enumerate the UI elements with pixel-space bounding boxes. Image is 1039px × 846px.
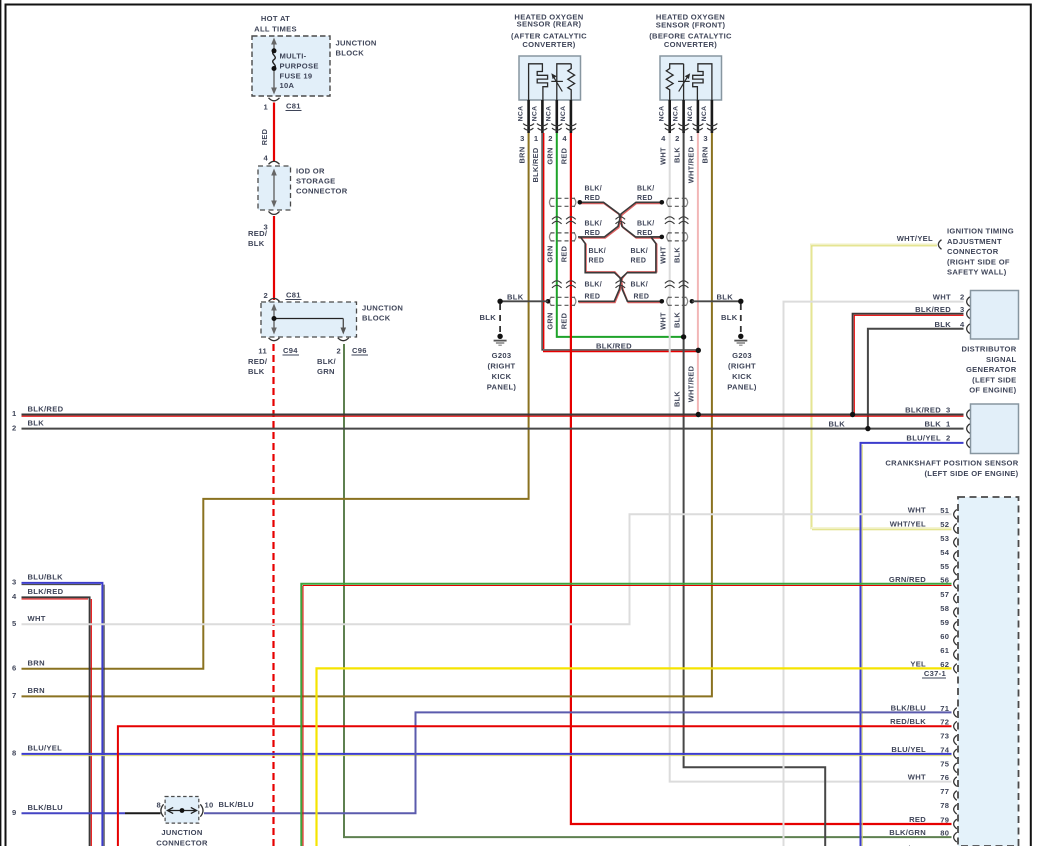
rotated labels GRN RED mid bbox=[546, 245, 569, 262]
svg-text:BLK/: BLK/ bbox=[585, 281, 603, 288]
svg-text:2: 2 bbox=[263, 291, 268, 300]
svg-text:58: 58 bbox=[940, 604, 949, 613]
svg-text:WHT: WHT bbox=[933, 293, 951, 302]
ECU pin arcs 71-80 bbox=[954, 708, 957, 842]
svg-text:3: 3 bbox=[946, 406, 951, 415]
label IGNITION TIMING ADJUSTMENT CONNECTOR bbox=[947, 227, 1014, 277]
svg-text:73: 73 bbox=[940, 732, 949, 741]
connector arc below IOD box bbox=[269, 211, 280, 214]
svg-text:57: 57 bbox=[940, 590, 949, 599]
svg-text:CONVERTER): CONVERTER) bbox=[664, 40, 717, 49]
svg-text:C81: C81 bbox=[286, 291, 301, 300]
svg-text:1: 1 bbox=[946, 419, 951, 428]
svg-text:BLK: BLK bbox=[934, 320, 951, 329]
fuse terminal dot top bbox=[272, 48, 277, 53]
junction connector dashed box bbox=[165, 797, 199, 824]
node dot row2 right bbox=[660, 235, 665, 240]
heated oxygen sensor rear title bbox=[511, 13, 587, 50]
svg-text:NCA: NCA bbox=[687, 106, 694, 122]
svg-text:RED: RED bbox=[909, 815, 926, 824]
svg-text:61: 61 bbox=[940, 646, 950, 655]
label 5 WHT bbox=[12, 614, 46, 628]
svg-text:3: 3 bbox=[960, 305, 965, 314]
svg-text:SENSOR (REAR): SENSOR (REAR) bbox=[517, 20, 582, 29]
fuse arrow up bbox=[271, 38, 277, 45]
svg-text:GENERATOR: GENERATOR bbox=[966, 365, 1017, 374]
svg-text:BLK: BLK bbox=[924, 419, 941, 428]
ground G203 right bbox=[734, 334, 747, 346]
svg-text:77: 77 bbox=[940, 787, 949, 796]
ECU pin arcs 51-62 bbox=[954, 510, 957, 674]
svg-text:1: 1 bbox=[263, 103, 268, 112]
wire 62 YEL bbox=[317, 668, 952, 846]
svg-text:WHT: WHT bbox=[908, 505, 926, 514]
svg-text:8: 8 bbox=[156, 801, 161, 810]
svg-text:C37-1: C37-1 bbox=[924, 669, 947, 678]
wire BLK distributor pin 4 bbox=[868, 329, 964, 429]
svg-text:BLK/RED: BLK/RED bbox=[531, 147, 540, 182]
svg-text:BLK: BLK bbox=[672, 391, 681, 407]
svg-text:JUNCTION: JUNCTION bbox=[336, 39, 377, 48]
heated oxygen sensor front box bbox=[660, 56, 722, 100]
svg-text:WHT/RED: WHT/RED bbox=[687, 146, 696, 183]
svg-text:BLK/GRN: BLK/GRN bbox=[889, 828, 926, 837]
label JUNCTION CONNECTOR bbox=[156, 828, 208, 846]
label 9 BLK/BLU bbox=[12, 803, 63, 817]
dashed lead G203 left bbox=[499, 304, 501, 333]
IOD double arrow bbox=[271, 169, 277, 208]
wire BLK/GRN C96 down to ECU pin 80 bbox=[344, 344, 952, 837]
svg-text:WHT: WHT bbox=[658, 246, 667, 264]
wire BLK to G203 right bbox=[692, 300, 741, 302]
svg-text:2: 2 bbox=[946, 434, 951, 443]
svg-text:52: 52 bbox=[940, 520, 949, 529]
svg-text:(LEFT SIDE: (LEFT SIDE bbox=[972, 375, 1016, 384]
wire BLK to G203 left bbox=[500, 300, 548, 302]
wire 5 WHT to ECU pin 51 bbox=[22, 514, 952, 624]
ignition connector arc bbox=[938, 240, 941, 250]
wire WHT to distributor pin 2 bbox=[784, 302, 964, 846]
svg-text:BLK/: BLK/ bbox=[317, 357, 337, 366]
wire GRN rear sensor bbox=[557, 133, 684, 337]
svg-text:STORAGE: STORAGE bbox=[296, 177, 336, 186]
svg-text:54: 54 bbox=[940, 548, 950, 557]
svg-text:(RIGHT SIDE OF: (RIGHT SIDE OF bbox=[947, 257, 1010, 266]
wire RED rear sensor to ECU pin 79 bbox=[571, 133, 952, 824]
wire 72 RED/BLK bbox=[118, 726, 952, 846]
svg-text:WHT/RED: WHT/RED bbox=[687, 365, 696, 402]
svg-text:71: 71 bbox=[940, 704, 950, 713]
connector C37-1 label bbox=[922, 669, 946, 678]
label G203 RIGHT KICK PANEL left bbox=[487, 351, 517, 392]
label BLK/GRN (below C96) bbox=[317, 357, 337, 376]
svg-text:PANEL): PANEL) bbox=[727, 383, 757, 392]
svg-text:RED: RED bbox=[260, 128, 269, 145]
crossover wire B black bbox=[578, 202, 662, 237]
svg-text:2: 2 bbox=[548, 134, 553, 143]
svg-text:4: 4 bbox=[661, 134, 666, 143]
svg-text:74: 74 bbox=[940, 745, 950, 754]
svg-text:C81: C81 bbox=[286, 102, 301, 111]
svg-text:WHT/YEL: WHT/YEL bbox=[897, 234, 933, 243]
label 7 BRN bbox=[12, 686, 45, 700]
label G203 RIGHT KICK PANEL right bbox=[727, 351, 757, 392]
svg-text:YEL: YEL bbox=[910, 659, 926, 668]
svg-text:BLK: BLK bbox=[829, 419, 846, 428]
inline connector row2 left bbox=[549, 232, 575, 241]
sensor rear zigzag resistor bbox=[568, 64, 575, 100]
svg-text:BLK/: BLK/ bbox=[631, 281, 649, 288]
svg-text:NCA: NCA bbox=[673, 106, 680, 122]
crossover wire A black bbox=[580, 202, 662, 237]
sensor connector arcs front bbox=[664, 124, 717, 131]
wire BLK/RED rear sensor black bbox=[542, 133, 698, 350]
svg-text:1: 1 bbox=[534, 134, 539, 143]
svg-text:BLU/YEL: BLU/YEL bbox=[891, 745, 926, 754]
sensor connector arcs rear bbox=[523, 124, 576, 131]
svg-text:4: 4 bbox=[12, 592, 17, 601]
svg-text:60: 60 bbox=[940, 632, 949, 641]
sensor rear pin numbers 3 1 2 4 bbox=[520, 134, 567, 143]
svg-text:1: 1 bbox=[12, 409, 17, 418]
connector arc below junction block 2 left bbox=[269, 338, 280, 341]
svg-text:(RIGHT: (RIGHT bbox=[728, 362, 756, 371]
wire 9 BLK/BLU black segment bbox=[125, 812, 161, 814]
ECU pin numbers 71-81 bbox=[940, 704, 950, 846]
svg-text:BLK: BLK bbox=[717, 293, 734, 302]
svg-text:RED: RED bbox=[589, 258, 605, 265]
svg-text:BLK/BLU: BLK/BLU bbox=[219, 800, 255, 809]
svg-text:55: 55 bbox=[940, 562, 950, 571]
wire 2 BLK long bbox=[22, 428, 964, 430]
svg-text:79: 79 bbox=[940, 816, 949, 825]
svg-text:JUNCTION: JUNCTION bbox=[362, 304, 403, 313]
svg-text:BLK/: BLK/ bbox=[585, 220, 603, 227]
svg-text:BLK: BLK bbox=[480, 313, 497, 322]
svg-text:C96: C96 bbox=[352, 346, 367, 355]
svg-text:BLK/RED: BLK/RED bbox=[596, 342, 632, 351]
inline connector row3 left bbox=[549, 297, 575, 306]
svg-text:BLK: BLK bbox=[248, 239, 265, 248]
svg-text:BLOCK: BLOCK bbox=[362, 314, 391, 323]
svg-text:SAFETY WALL): SAFETY WALL) bbox=[947, 268, 1007, 277]
svg-text:62: 62 bbox=[940, 660, 949, 669]
svg-text:CONNECTOR: CONNECTOR bbox=[947, 247, 999, 256]
svg-text:KICK: KICK bbox=[732, 372, 752, 381]
node dot row3 left outer bbox=[546, 299, 551, 304]
svg-text:RED: RED bbox=[637, 195, 653, 202]
svg-text:SIGNAL: SIGNAL bbox=[986, 355, 1017, 364]
badge wire right black bbox=[578, 237, 662, 301]
label HOT AT ALL TIMES bbox=[254, 14, 297, 34]
svg-text:CONVERTER): CONVERTER) bbox=[522, 40, 575, 49]
svg-text:BLK: BLK bbox=[507, 293, 524, 302]
badge wire right red shadow bbox=[579, 238, 662, 302]
connector C96 label bbox=[352, 346, 369, 355]
node dot WHT/RED line1 bbox=[696, 412, 701, 417]
sensor front variable arrow bbox=[678, 74, 690, 91]
svg-text:10: 10 bbox=[205, 801, 214, 810]
wire BLU/YEL crankshaft yellow stripe bbox=[861, 445, 863, 846]
svg-text:WHT/YEL: WHT/YEL bbox=[890, 519, 926, 528]
svg-text:G203: G203 bbox=[732, 351, 752, 360]
svg-text:2: 2 bbox=[675, 134, 680, 143]
wire RED fuse to IOD bbox=[273, 103, 275, 163]
connector arc below junction block 2 right bbox=[338, 338, 349, 341]
svg-text:BLK: BLK bbox=[248, 367, 265, 376]
svg-text:NCA: NCA bbox=[531, 106, 538, 122]
wire RED/BLK dashed C94 down bbox=[272, 344, 274, 846]
svg-text:BRN: BRN bbox=[517, 147, 526, 164]
svg-text:BLK/: BLK/ bbox=[589, 248, 607, 255]
wire BRN rear sensor to left edge 6 bbox=[22, 133, 529, 669]
fuse terminal dot bottom bbox=[272, 66, 277, 71]
label MULTI-PURPOSE FUSE 19 10A bbox=[280, 52, 319, 91]
sensor front heater element bbox=[693, 64, 712, 100]
svg-text:51: 51 bbox=[940, 506, 950, 515]
rotated labels WHT BLK lower bbox=[658, 312, 681, 330]
wire WHT/RED front sensor bbox=[697, 133, 699, 415]
heated oxygen sensor front title bbox=[649, 13, 732, 50]
wire 1 BLK/RED long red stripe bbox=[22, 415, 964, 417]
label 1 BLK/RED bbox=[12, 404, 64, 418]
connector arc below fuse box bbox=[269, 98, 280, 101]
sensor rear sense element vertical bbox=[557, 64, 571, 100]
inline connector row3 right bbox=[667, 297, 688, 306]
ECU pin numbers 51-62 bbox=[940, 506, 950, 669]
crossover wire B red shadow bbox=[579, 204, 662, 239]
inline connector row1 left bbox=[549, 198, 575, 207]
svg-text:RED: RED bbox=[560, 245, 569, 262]
svg-text:OF ENGINE): OF ENGINE) bbox=[969, 386, 1016, 395]
svg-text:53: 53 bbox=[940, 534, 949, 543]
svg-text:RED: RED bbox=[560, 147, 569, 164]
fuse arrow down bbox=[271, 88, 277, 95]
svg-text:59: 59 bbox=[940, 618, 949, 627]
svg-text:2: 2 bbox=[12, 423, 17, 432]
svg-text:ALL TIMES: ALL TIMES bbox=[254, 25, 297, 34]
inline connector row2 right bbox=[667, 232, 688, 241]
svg-text:WHT: WHT bbox=[658, 312, 667, 330]
svg-text:RED/: RED/ bbox=[248, 229, 268, 238]
fuse F19 element bbox=[273, 43, 276, 88]
svg-text:PURPOSE: PURPOSE bbox=[280, 62, 319, 71]
node dot G203 left bbox=[497, 299, 502, 304]
svg-text:BLU/BLK: BLU/BLK bbox=[28, 573, 64, 582]
NCA labels rear bbox=[518, 106, 567, 122]
svg-text:IOD OR: IOD OR bbox=[296, 167, 325, 176]
junction block (fuse) dashed box bbox=[252, 36, 330, 96]
wire 56 GRN/RED red stripe bbox=[303, 586, 952, 846]
svg-text:PANEL): PANEL) bbox=[487, 383, 517, 392]
wire 8 BLU/YEL to ECU pin 74 bbox=[22, 753, 952, 755]
connector C94 label bbox=[283, 346, 300, 355]
junction connector dot bbox=[180, 808, 185, 813]
svg-text:BLK/: BLK/ bbox=[585, 186, 603, 193]
node dot row3 right inner bbox=[660, 299, 665, 304]
crankshaft pin labels bbox=[905, 406, 951, 443]
svg-text:RED: RED bbox=[585, 230, 601, 237]
svg-text:BLK/: BLK/ bbox=[631, 248, 649, 255]
svg-text:1: 1 bbox=[689, 134, 694, 143]
junction block 2 dashed box bbox=[261, 302, 357, 337]
wire RED IOD to junction block 2 bbox=[273, 216, 275, 300]
wire 1 BLK/RED long black bbox=[22, 414, 964, 416]
svg-text:BRN: BRN bbox=[28, 686, 45, 695]
junction connector arcs bbox=[161, 804, 203, 816]
connector C81 label bbox=[286, 102, 302, 111]
svg-text:4: 4 bbox=[263, 154, 268, 163]
svg-text:7: 7 bbox=[12, 691, 17, 700]
svg-text:WHT: WHT bbox=[28, 614, 46, 623]
wire 4 BLK/RED red stripe bbox=[22, 599, 92, 846]
svg-text:BLK: BLK bbox=[721, 313, 738, 322]
svg-text:RED: RED bbox=[585, 195, 601, 202]
badge wire left black bbox=[581, 237, 662, 301]
svg-text:BLK: BLK bbox=[672, 247, 681, 263]
ECU wire labels bbox=[889, 505, 926, 846]
label JUNCTION BLOCK (mid) bbox=[362, 304, 403, 323]
svg-text:RED: RED bbox=[585, 293, 601, 300]
wire BLK/RED distributor pin 3 red stripe bbox=[854, 315, 963, 413]
svg-text:RED: RED bbox=[634, 293, 650, 300]
wire WHT/YEL yellow edge bbox=[811, 246, 952, 530]
rotated wire color labels front bbox=[658, 146, 709, 183]
svg-text:BRN: BRN bbox=[28, 659, 45, 668]
svg-text:BLK/BLU: BLK/BLU bbox=[891, 703, 927, 712]
ECU connector C37-1 dashed box bbox=[958, 497, 1019, 846]
sensor front pin numbers 4 2 1 3 bbox=[661, 134, 708, 143]
svg-text:G203: G203 bbox=[492, 351, 512, 360]
svg-text:RED: RED bbox=[631, 258, 647, 265]
distributor signal generator box bbox=[971, 291, 1019, 340]
svg-text:76: 76 bbox=[940, 773, 949, 782]
svg-text:GRN: GRN bbox=[317, 367, 335, 376]
label 6 BRN bbox=[12, 659, 45, 673]
svg-text:BRN: BRN bbox=[701, 147, 710, 164]
node dot GRN to BLK bbox=[681, 334, 686, 339]
label CRANKSHAFT POSITION SENSOR bbox=[885, 459, 1018, 478]
crossover wire A red shadow bbox=[581, 204, 662, 239]
label RED/BLK (below C94) bbox=[248, 357, 268, 376]
svg-text:6: 6 bbox=[12, 664, 17, 673]
svg-text:2: 2 bbox=[960, 293, 965, 302]
inline connector arcs row B bbox=[552, 281, 688, 288]
svg-text:BLU/YEL: BLU/YEL bbox=[28, 744, 63, 753]
svg-text:ADJUSTMENT: ADJUSTMENT bbox=[947, 237, 1002, 246]
node dot row1 left bbox=[578, 200, 583, 205]
inline connector arcs row A bbox=[552, 217, 688, 224]
svg-text:BLK/: BLK/ bbox=[637, 220, 655, 227]
svg-text:HOT AT: HOT AT bbox=[261, 14, 290, 23]
NCA labels front bbox=[659, 106, 708, 122]
svg-text:NCA: NCA bbox=[546, 106, 553, 122]
node dot BLK/RED to WHT/RED bbox=[696, 348, 701, 353]
svg-text:BLK/RED: BLK/RED bbox=[28, 587, 64, 596]
wire 9 BLK/BLU right to ECU pin 71 bbox=[204, 712, 952, 813]
rotated wire color labels rear bbox=[517, 147, 568, 183]
sensor rear heater element bbox=[529, 64, 548, 100]
junction block 2 internal arrows and bus bbox=[271, 304, 346, 335]
label RED/BLK bbox=[248, 229, 268, 248]
node dot row3 right outer bbox=[690, 299, 695, 304]
wire BLK front sensor down bbox=[684, 133, 826, 846]
svg-text:(RIGHT: (RIGHT bbox=[488, 362, 516, 371]
label DISTRIBUTOR SIGNAL GENERATOR bbox=[961, 345, 1016, 395]
wire BLU/YEL crankshaft pin 2 bbox=[861, 443, 964, 846]
rotated labels GRN RED lower bbox=[546, 312, 569, 329]
svg-text:NCA: NCA bbox=[518, 106, 525, 122]
badge inner labels bbox=[589, 248, 649, 265]
svg-text:GRN/RED: GRN/RED bbox=[889, 575, 926, 584]
wire BRN front sensor to left edge 7 bbox=[22, 133, 712, 696]
svg-text:BLK: BLK bbox=[672, 312, 681, 328]
junction connector double arrow bbox=[167, 807, 196, 813]
svg-text:BLK/RED: BLK/RED bbox=[905, 406, 941, 415]
inline connector row1 right bbox=[667, 198, 688, 207]
svg-text:3: 3 bbox=[703, 134, 708, 143]
rotated labels WHT BLK mid bbox=[658, 246, 681, 264]
ground G203 left bbox=[494, 334, 507, 346]
svg-text:SENSOR (FRONT): SENSOR (FRONT) bbox=[656, 21, 726, 30]
wire WHT front sensor to ECU pin 76 bbox=[670, 133, 952, 782]
svg-text:80: 80 bbox=[940, 829, 949, 838]
svg-text:WHT: WHT bbox=[908, 773, 926, 782]
svg-text:WHT: WHT bbox=[658, 147, 667, 165]
svg-text:3: 3 bbox=[520, 134, 525, 143]
svg-text:75: 75 bbox=[940, 759, 950, 768]
page border top bbox=[5, 4, 1032, 6]
svg-text:KICK: KICK bbox=[492, 372, 512, 381]
svg-text:BLK/RED: BLK/RED bbox=[28, 404, 64, 413]
heated oxygen sensor rear box bbox=[519, 56, 581, 100]
IOD or storage connector dashed box bbox=[258, 166, 291, 210]
connector C81 label 2 bbox=[286, 291, 302, 300]
wire BLK/RED rear sensor red stripe bbox=[543, 133, 698, 352]
sensor front zigzag resistor bbox=[666, 64, 683, 100]
svg-text:RED/: RED/ bbox=[248, 357, 268, 366]
wire 56 GRN/RED green bbox=[301, 584, 951, 846]
svg-text:NCA: NCA bbox=[659, 106, 666, 122]
crankshaft position sensor box bbox=[971, 404, 1019, 454]
svg-text:CONNECTOR: CONNECTOR bbox=[156, 839, 208, 846]
svg-text:BLK/BLU: BLK/BLU bbox=[28, 803, 64, 812]
sensor rear variable arrow bbox=[551, 74, 563, 91]
label 2 BLK bbox=[12, 418, 44, 432]
svg-text:RED/BLK: RED/BLK bbox=[890, 717, 926, 726]
svg-text:78: 78 bbox=[940, 801, 949, 810]
label JUNCTION BLOCK (top) bbox=[336, 39, 377, 58]
wire BLK/RED distributor pin 3 black bbox=[853, 314, 964, 415]
crankshaft pin arcs bbox=[967, 410, 970, 448]
svg-text:4: 4 bbox=[960, 320, 965, 329]
svg-text:11: 11 bbox=[258, 347, 267, 356]
svg-text:DISTRIBUTOR: DISTRIBUTOR bbox=[961, 345, 1016, 354]
svg-text:8: 8 bbox=[12, 749, 17, 758]
svg-text:IGNITION TIMING: IGNITION TIMING bbox=[947, 227, 1014, 236]
svg-text:3: 3 bbox=[12, 578, 17, 587]
svg-text:BLK/RED: BLK/RED bbox=[915, 305, 951, 314]
svg-text:BLK: BLK bbox=[28, 418, 45, 427]
svg-text:MULTI-: MULTI- bbox=[280, 52, 307, 61]
wire 9 BLK/BLU blue left segment bbox=[22, 812, 126, 814]
svg-text:10A: 10A bbox=[280, 81, 295, 90]
svg-text:RED: RED bbox=[637, 230, 653, 237]
svg-text:72: 72 bbox=[940, 718, 949, 727]
sensor front sense element vertical bbox=[683, 64, 685, 100]
crossover labels row3 bbox=[585, 281, 650, 300]
svg-text:NCA: NCA bbox=[701, 106, 708, 122]
